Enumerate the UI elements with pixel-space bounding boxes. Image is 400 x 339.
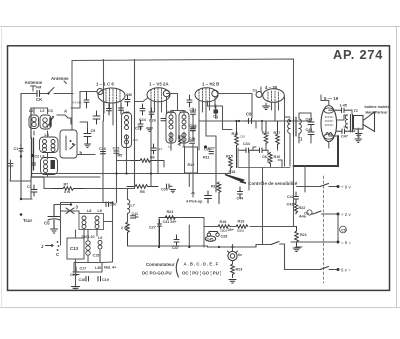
svg-text:L9: L9: [98, 236, 102, 240]
wire L10 right: [88, 222, 113, 263]
svg-text:C39: C39: [113, 147, 120, 151]
svg-text:Cs: Cs: [253, 89, 258, 93]
wire left of R7: [44, 177, 52, 189]
svg-text:Antenne: Antenne: [25, 80, 43, 85]
wire rail drop x103.5: [103, 60, 105, 122]
ground bottom: [72, 287, 80, 291]
tube V5 grid: [324, 108, 334, 113]
svg-text:R18: R18: [220, 220, 227, 224]
border frame: [8, 46, 390, 291]
capacitor C5: [48, 205, 60, 229]
capacitor C7: [31, 185, 37, 196]
wire V3 to V4: [218, 94, 252, 119]
svg-text:Nat. 4+: Nat. 4+: [104, 266, 116, 270]
wire T1 secondary down: [290, 134, 299, 167]
wire bottom bus y246: [128, 245, 208, 247]
wire osc verticals: [61, 203, 113, 287]
IF1 trimmers: [93, 111, 100, 124]
svg-text:A . B . C . D . E . F: A . B . C . D . E . F: [184, 262, 219, 267]
brace: [176, 259, 178, 277]
wire left col bottoms: [31, 131, 48, 199]
wire y226 bias: [204, 226, 297, 228]
capacitor C47: [337, 129, 349, 134]
terminal +2v: [337, 213, 340, 216]
svg-text:C45: C45: [207, 238, 214, 242]
svg-text:6 v ~: 6 v ~: [341, 268, 351, 273]
svg-text:CK: CK: [262, 155, 268, 159]
trimmer X: [66, 208, 74, 214]
wire vertical x134.5: [134, 60, 136, 189]
svg-text:C10: C10: [110, 203, 117, 207]
svg-text:R19: R19: [238, 220, 245, 224]
vertical C39 wire: [116, 174, 118, 203]
svg-text:C33: C33: [157, 147, 163, 151]
wire +9v: [297, 186, 321, 188]
capacitor C47b: [174, 235, 179, 245]
capacitor C44b: [253, 148, 268, 153]
tube V1 grid cap: [97, 89, 103, 95]
svg-text:3-9 MA: 3-9 MA: [72, 101, 82, 105]
svg-text:Antenne: Antenne: [51, 76, 69, 81]
wire output cathode: [329, 136, 338, 148]
antenna 2 lead: [64, 81, 67, 84]
wire tube3 pins down: [199, 121, 216, 168]
junction nodes bus: [238, 120, 240, 122]
svg-text:Tcur: Tcur: [23, 218, 32, 223]
capacitor C8: [84, 92, 89, 109]
tube V4 envelope: [263, 89, 285, 103]
wire coil tops: [31, 108, 48, 114]
tube V5 top pin: [328, 101, 330, 106]
svg-text:C13: C13: [70, 246, 79, 251]
svg-text:R6: R6: [150, 156, 155, 160]
wire y188: [85, 188, 134, 190]
junction bus: [150, 172, 152, 174]
capacitor C45 oval: [205, 236, 215, 241]
svg-text:R8: R8: [140, 190, 145, 194]
wire IF1 bottom drop: [126, 135, 128, 174]
main left bus: [30, 108, 32, 138]
svg-text:5000: 5000: [237, 229, 244, 233]
transformer T1 windings: [288, 119, 302, 133]
capacitor C24: [140, 104, 145, 115]
svg-text:C47: C47: [172, 246, 179, 250]
coil L8: [82, 216, 86, 229]
wire 1-45 to speaker: [336, 110, 359, 133]
svg-text:Commutateur: Commutateur: [146, 262, 175, 267]
wire detector box bottom drops: [253, 147, 282, 168]
svg-text:3 w: 3 w: [64, 190, 70, 194]
svg-text:C17: C17: [80, 267, 87, 271]
svg-text:1g: 1g: [168, 145, 172, 149]
svg-text:C14: C14: [70, 273, 78, 277]
wire C45 stack: [299, 113, 311, 143]
speaker cone: [363, 112, 375, 132]
svg-text:1-45: 1-45: [340, 104, 347, 108]
tube V3 envelope: [195, 88, 218, 102]
svg-text:C16: C16: [79, 278, 86, 282]
switch antenna: [48, 88, 54, 94]
wire R10 drop: [188, 225, 190, 247]
switch S2: [311, 211, 321, 214]
box bias section: [159, 218, 204, 248]
capacitor CK: [37, 91, 40, 97]
capacitor C2: [32, 158, 36, 170]
capacitor C23: [138, 120, 143, 130]
svg-text:C5: C5: [44, 221, 50, 226]
scan left edge: [1, 26, 3, 307]
svg-text:C19: C19: [102, 278, 109, 282]
svg-text:C23: C23: [135, 127, 142, 131]
junction bias box: [158, 246, 160, 248]
transformer T1 core: [294, 117, 297, 136]
wire node A bend: [57, 115, 71, 124]
svg-text:bobine mobile: bobine mobile: [365, 105, 390, 109]
svg-text:+ 9 v: + 9 v: [341, 185, 351, 190]
tube V3 anode cap: [212, 90, 218, 96]
svg-text:CK: CK: [36, 97, 43, 102]
resistor R22: [294, 203, 297, 214]
speaker frame: [354, 116, 364, 130]
svg-text:2 w: 2 w: [121, 226, 127, 230]
svg-text:C1: C1: [14, 147, 19, 151]
svg-text:C3: C3: [48, 109, 53, 113]
capacitor C40: [205, 191, 212, 203]
svg-text:R24: R24: [167, 210, 175, 214]
svg-text:100: 100: [133, 138, 138, 142]
switch S3: [271, 242, 279, 245]
svg-text:C42: C42: [287, 195, 294, 199]
wire antenna horizontal: [21, 93, 48, 95]
wire L14 top link: [167, 94, 185, 115]
tube V4 pins: [266, 103, 279, 121]
tube V5 envelope: [321, 106, 337, 142]
tube V5 filament: [326, 133, 333, 136]
wire tube4 plate: [285, 97, 291, 166]
svg-text:4 Pick-up: 4 Pick-up: [186, 200, 203, 204]
svg-text:R5: R5: [118, 154, 123, 158]
svg-text:C9: C9: [91, 129, 96, 133]
svg-text:R11: R11: [203, 156, 210, 160]
inner top rail wire: [72, 59, 294, 166]
svg-text:L8: L8: [87, 209, 91, 213]
wire tube2 grid stub: [135, 98, 148, 102]
ground R21: [293, 248, 300, 252]
wire to inner rail: [54, 93, 73, 95]
coil L2: [29, 115, 39, 129]
scan bottom edge: [0, 307, 400, 309]
node D: [204, 145, 207, 148]
svg-text:C5: C5: [341, 229, 346, 233]
scan top edge: [0, 26, 400, 28]
band switch box: [60, 130, 77, 158]
tube V4 grids: [268, 91, 279, 103]
coil L9b: [98, 241, 102, 250]
resistor R10 box: [185, 147, 198, 173]
capacitor Cg: [214, 110, 219, 114]
tube V1 envelope: [98, 88, 125, 103]
svg-text:OC ¦ PO ¦ GO ¦ PU ¦: OC ¦ PO ¦ GO ¦ PU ¦: [182, 271, 221, 276]
svg-text:R23: R23: [236, 268, 243, 272]
wire tube V1 left: [71, 92, 97, 109]
wire R15 bottom: [216, 169, 231, 174]
wire stub: [21, 198, 32, 200]
junction T1: [289, 120, 291, 122]
resistor R12: [126, 222, 130, 246]
capacitor C12 left edge: [8, 160, 13, 181]
svg-text:1 – V3 2A: 1 – V3 2A: [149, 82, 169, 87]
wire L7 vertical: [127, 189, 129, 223]
wire bus to T1: [310, 120, 311, 122]
lamp: [228, 251, 237, 260]
svg-text:220: 220: [240, 135, 245, 139]
svg-text:C27: C27: [149, 226, 156, 230]
wire osc to bus: [102, 174, 104, 178]
coil L10: [86, 241, 90, 255]
wire lamp to 6v: [256, 244, 271, 246]
svg-text:C26: C26: [149, 119, 156, 123]
box C13: [67, 238, 84, 259]
wire mid drops: [117, 146, 165, 187]
linkage dashed: [323, 176, 325, 283]
svg-text:L7: L7: [131, 204, 135, 208]
capacitor C33: [151, 144, 156, 154]
wire staircase tube3 pin: [208, 101, 233, 130]
svg-text:R21: R21: [300, 233, 307, 237]
svg-text:DC PO-GO.PU: DC PO-GO.PU: [142, 271, 172, 276]
junction bus: [218, 246, 220, 248]
wire C13 box top: [61, 211, 98, 238]
electrolytic C28: [209, 232, 218, 234]
wire y247 bus extend: [208, 245, 257, 248]
ground C47: [356, 134, 363, 138]
ground tube V4: [263, 106, 270, 110]
IF2 coil L14: [179, 112, 189, 143]
ground C9: [85, 144, 91, 148]
wire signal bus y121: [199, 120, 310, 122]
svg-text:R16: R16: [274, 155, 281, 159]
svg-text:Haut-Parleur: Haut-Parleur: [366, 111, 389, 115]
capacitor C26: [149, 108, 154, 118]
IF1 coil L11: [122, 113, 132, 148]
capacitor C19: [98, 277, 101, 282]
wire IF2 bottom drops: [171, 118, 193, 187]
svg-text:R16: R16: [232, 132, 239, 136]
svg-text:C47: C47: [341, 135, 348, 139]
wire -6v: [291, 241, 337, 243]
transformer T2 windings: [345, 115, 347, 128]
svg-text:C43: C43: [191, 125, 197, 129]
svg-text:C6: C6: [246, 112, 252, 117]
svg-text:C36: C36: [99, 147, 106, 151]
ground C35: [170, 190, 176, 193]
svg-text:R22: R22: [299, 206, 306, 210]
wire osc top: [61, 202, 113, 204]
svg-text:2g: 2g: [182, 145, 186, 149]
ground tube2: [147, 128, 153, 132]
wire lamp: [232, 247, 234, 264]
capacitor C1: [19, 144, 23, 156]
detector box: [238, 148, 290, 168]
capacitor C9: [84, 128, 91, 144]
junction R10 drop: [188, 246, 190, 248]
capacitor C16: [86, 277, 89, 282]
terminal -6v: [337, 241, 340, 244]
terminal +9v: [337, 185, 340, 188]
tube V3 grids: [199, 89, 210, 102]
svg-text:= 6 =: = 6 =: [341, 240, 351, 245]
ground: [51, 229, 58, 233]
svg-text:L9: L9: [98, 209, 102, 213]
capacitor under tube1 a: [107, 104, 112, 115]
tube V2 envelope: [147, 88, 170, 102]
svg-text:2500: 2500: [220, 229, 227, 233]
svg-text:CM: CM: [126, 93, 132, 97]
capacitor under tube1 b: [119, 104, 124, 114]
wire b: [77, 122, 95, 155]
tube V4 grid cap: [256, 92, 262, 98]
coil L3: [40, 115, 51, 129]
svg-text:AP. 274: AP. 274: [333, 47, 383, 62]
wire C5 top: [54, 204, 71, 206]
svg-text:L30: L30: [95, 266, 101, 270]
ground switch: [296, 246, 303, 248]
svg-text:L3: L3: [40, 109, 44, 113]
switch S4: [320, 267, 329, 270]
wire B+ drop: [304, 166, 306, 186]
tube V3 pins: [199, 97, 215, 121]
capacitor tube3 left: [187, 95, 192, 107]
vertical C36 wire: [102, 121, 104, 203]
svg-text:1 – H2 B: 1 – H2 B: [202, 82, 219, 87]
tube V2 grids: [151, 89, 162, 102]
ground speaker: [355, 139, 362, 143]
node junction: [20, 155, 22, 157]
svg-text:C15: C15: [93, 254, 100, 258]
wire y160 left: [117, 160, 131, 162]
coil L6: [41, 158, 58, 175]
arrow sensitivity: [225, 175, 246, 184]
svg-text:C38: C38: [189, 137, 196, 141]
capacitor C36: [161, 119, 166, 121]
wire output tube top: [321, 95, 337, 110]
svg-text:C43: C43: [287, 203, 294, 207]
wire left drop: [20, 94, 22, 200]
scan right edge: [396, 26, 398, 307]
svg-text:Contrôle de sensibilité: Contrôle de sensibilité: [248, 181, 298, 186]
wire output tube to T2: [337, 115, 348, 127]
tube V1 pins: [104, 101, 121, 174]
B+ thick wire: [294, 136, 339, 166]
svg-text:1 – 1 C 6: 1 – 1 C 6: [96, 82, 114, 87]
svg-text:25+: 25+: [228, 228, 234, 232]
svg-text:C28: C28: [221, 235, 228, 239]
terminal Tcur: [20, 213, 23, 216]
switch contacts C: [57, 241, 59, 243]
tube V2 anode cap: [163, 90, 169, 96]
svg-text:FM: FM: [36, 86, 41, 90]
box C17 L30: [74, 263, 102, 273]
wire detector drops: [193, 147, 263, 245]
right bias cluster R22: [294, 192, 299, 203]
tube V1 grids: [106, 89, 120, 102]
antenna terminal mark: [31, 86, 36, 91]
svg-text:C44: C44: [243, 142, 251, 146]
bus AVC y173.5: [10, 177, 100, 181]
capacitor C14: [73, 267, 79, 275]
wire right column: [294, 166, 306, 227]
terminal 6v AC: [337, 268, 340, 271]
transformer T2 core: [351, 115, 353, 133]
svg-text:T1: T1: [298, 137, 304, 142]
svg-text:+ 2 v: + 2 v: [341, 212, 351, 217]
ground R23: [229, 280, 236, 284]
resistor detector vertical: [269, 153, 272, 167]
wire tube4 grid top: [261, 87, 275, 121]
svg-text:C41 25+: C41 25+: [163, 220, 177, 224]
battery C5b: [337, 216, 339, 241]
tube V2 pins: [151, 97, 167, 174]
svg-text:C30: C30: [204, 148, 211, 152]
coil L4: [40, 137, 59, 153]
coil L9: [95, 216, 99, 229]
IF2 coil L13: [166, 112, 176, 143]
switch S1: [320, 184, 329, 187]
box oscillator coils: [79, 214, 104, 230]
wire C6 bus drops: [256, 121, 262, 131]
